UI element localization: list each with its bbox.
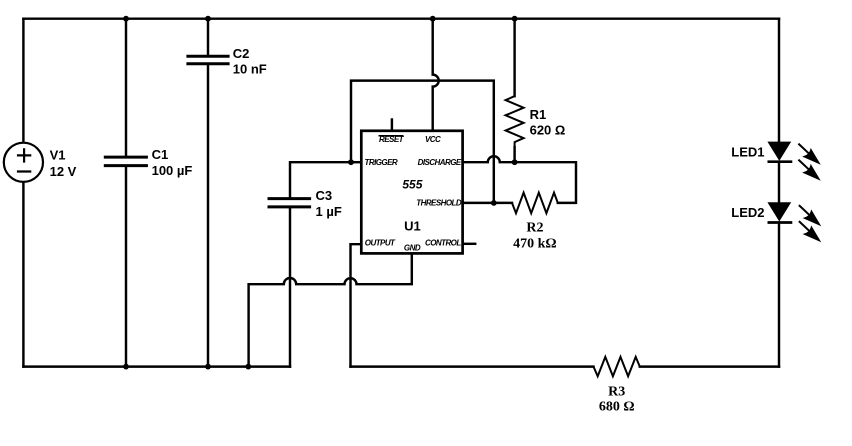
capacitor C2 plates: [186, 56, 229, 64]
wire top bus: [23, 17, 779, 19]
capacitor C1 plates: [104, 157, 148, 166]
wire VCC branch with hop: [433, 19, 439, 131]
node trigger junction: [348, 159, 354, 165]
node threshold R2 junction: [491, 200, 497, 206]
svg-text:C2: C2: [233, 46, 250, 61]
wire left rail lower: [22, 182, 24, 367]
svg-text:DISCHARGE: DISCHARGE: [418, 158, 462, 167]
wire left rail upper: [22, 19, 24, 143]
LED2 arrows: [799, 205, 820, 241]
wire LED1-LED2 link: [778, 162, 780, 203]
svg-text:R3: R3: [608, 385, 625, 400]
svg-text:620 Ω: 620 Ω: [530, 123, 566, 138]
svg-text:LED2: LED2: [731, 205, 764, 220]
wire C1 branch lower: [125, 167, 127, 367]
svg-text:R1: R1: [530, 107, 547, 122]
LED1 arrows: [798, 144, 819, 180]
svg-text:C3: C3: [316, 188, 333, 203]
resistor R1: [506, 96, 524, 147]
node bottom C2 junction: [205, 364, 211, 370]
svg-text:10 nF: 10 nF: [233, 61, 267, 76]
svg-text:LED1: LED1: [731, 145, 764, 160]
wire control stub: [463, 243, 476, 245]
wire R3 right to LED branch: [640, 365, 779, 367]
wire C1 branch upper: [125, 19, 127, 156]
node top R1 junction: [512, 16, 518, 22]
svg-text:555: 555: [402, 177, 422, 191]
pin label RESET with overline: [379, 135, 405, 144]
capacitor C3 plates: [268, 199, 312, 207]
node top C1 junction: [123, 16, 129, 22]
svg-text:TRIGGER: TRIGGER: [365, 158, 398, 167]
node discharge R1 junction: [512, 159, 518, 165]
svg-text:V1: V1: [50, 148, 66, 163]
IC U1 555 timer body: [361, 131, 462, 254]
wire C2 branch lower: [207, 65, 209, 367]
wire output pin down: [351, 244, 362, 366]
wire trigger pin: [351, 161, 361, 163]
resistor R2: [512, 193, 558, 214]
wire bottom output bus: [351, 365, 594, 367]
svg-text:U1: U1: [404, 218, 421, 233]
wire trigger-threshold link: [351, 81, 494, 203]
LED2: [768, 203, 793, 223]
svg-text:THRESHOLD: THRESHOLD: [416, 199, 462, 208]
svg-text:R2: R2: [526, 220, 543, 235]
svg-text:VCC: VCC: [425, 135, 441, 144]
svg-text:OUTPUT: OUTPUT: [365, 239, 396, 248]
node bottom gnd junction: [245, 364, 251, 370]
svg-text:CONTROL: CONTROL: [425, 239, 461, 248]
svg-text:GND: GND: [404, 243, 421, 252]
wire gnd pin route with hops: [249, 253, 412, 366]
wire C3 top connection: [290, 162, 351, 197]
svg-text:C1: C1: [152, 147, 169, 162]
node bottom C1 junction: [123, 364, 129, 370]
wire R1 bottom lead: [513, 147, 515, 162]
LED1: [768, 142, 793, 162]
svg-text:680 Ω: 680 Ω: [599, 399, 635, 414]
wire reset stub: [391, 120, 393, 131]
wire C2 branch upper: [207, 19, 209, 55]
wire right rail lower: [778, 223, 780, 367]
svg-text:100 µF: 100 µF: [152, 163, 193, 178]
svg-text:1 µF: 1 µF: [316, 204, 342, 219]
wire C3 bottom connection: [289, 208, 291, 367]
node top C2 junction: [205, 16, 211, 22]
node top VCC junction: [430, 16, 436, 22]
wire R1 top lead: [513, 19, 515, 96]
wire right rail upper: [778, 19, 780, 143]
svg-text:470 kΩ: 470 kΩ: [513, 237, 557, 252]
wire discharge with hop: [463, 156, 576, 203]
resistor R3: [594, 357, 640, 376]
wire threshold pin: [463, 202, 512, 204]
svg-text:12 V: 12 V: [50, 164, 77, 179]
voltage source V1: [4, 143, 43, 182]
wire bottom-left ground bus: [23, 365, 290, 367]
